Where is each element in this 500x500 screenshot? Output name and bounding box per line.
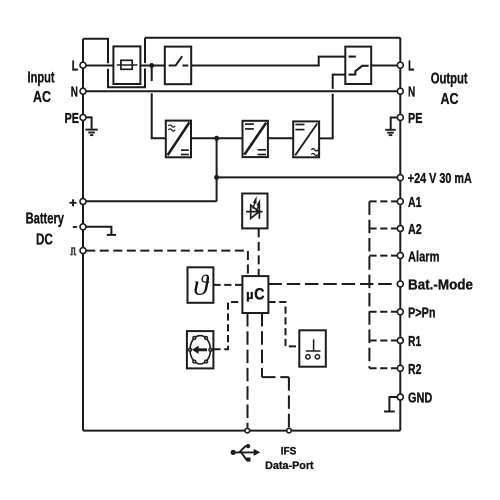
wire: DC bus down xyxy=(216,138,218,177)
battery minus sign xyxy=(73,226,77,228)
fuse element xyxy=(117,60,138,69)
wire: relay bus dashed vertical xyxy=(368,201,370,368)
svg-text:GND: GND xyxy=(408,390,432,406)
wire: temp sensor to uC dashed xyxy=(213,284,242,286)
wire: Alarm stub dashed xyxy=(369,255,397,257)
battery pulse signal symbol xyxy=(70,248,76,255)
wire: DC bus down to battery + xyxy=(216,177,218,201)
LED indicator box xyxy=(242,194,267,229)
converter U3 (DC/AC inverter) box xyxy=(293,121,319,157)
wire: crossing continuation to converter A xyxy=(152,93,166,138)
wire: top-left loop xyxy=(83,39,108,63)
svg-text:C: C xyxy=(254,286,264,304)
temperature sensor box xyxy=(188,267,214,303)
wire: A2 stub dashed xyxy=(369,228,397,230)
terminal N output xyxy=(397,88,403,94)
svg-text:Alarm: Alarm xyxy=(408,249,440,265)
svg-text:IFS: IFS xyxy=(281,445,297,457)
wire: A1 stub dashed xyxy=(369,200,397,202)
fan motor symbol xyxy=(188,336,213,364)
wire: LED to uC dashed xyxy=(258,228,260,276)
wire: uC to IFS port 2 dashed xyxy=(261,313,263,377)
wire: bypass vertical upper xyxy=(144,38,146,63)
switch S2 contact symbol xyxy=(349,57,369,76)
terminal Bat.-Mode xyxy=(397,281,403,287)
wire: +24V rail to terminal xyxy=(217,176,398,178)
converter U3 symbols xyxy=(295,123,318,155)
svg-text:AC: AC xyxy=(441,91,459,108)
svg-text:Output: Output xyxy=(431,71,468,88)
svg-text:A2: A2 xyxy=(408,222,422,238)
terminal PE output xyxy=(397,114,403,120)
terminal P>Pn xyxy=(397,309,403,315)
terminal N input xyxy=(80,88,86,94)
wire: L input to fuse xyxy=(83,65,113,67)
svg-text:Input: Input xyxy=(28,70,55,87)
terminal battery + xyxy=(80,199,86,205)
svg-text:AC: AC xyxy=(33,89,51,106)
ground: output PE xyxy=(385,118,397,136)
svg-text:L: L xyxy=(408,59,414,75)
svg-text:DC: DC xyxy=(36,232,53,249)
wire: P>Pn stub dashed xyxy=(369,311,397,313)
terminal Alarm xyxy=(397,253,403,259)
terminal PE input xyxy=(80,114,86,120)
push-button box xyxy=(299,330,326,366)
wire: enclosure bottom border xyxy=(83,430,400,432)
terminal A1 xyxy=(397,198,403,204)
switch S1 box xyxy=(165,47,191,85)
node: +24V tap junction xyxy=(214,175,219,180)
fan box xyxy=(187,331,214,368)
wire: uC to Bat.-Mode terminal dashed xyxy=(268,283,397,285)
push-button symbol xyxy=(306,339,321,359)
dashed signal wires xyxy=(86,228,258,276)
wire: uC to IFS port 1 dashed xyxy=(247,313,249,428)
wire: battery + wire xyxy=(83,200,217,202)
svg-text:µ: µ xyxy=(246,288,253,302)
wire: U2 to U3 xyxy=(268,137,293,139)
converter U2 symbols xyxy=(244,123,266,155)
terminal circles left xyxy=(80,62,86,253)
wire: fan to uC dashed xyxy=(213,302,242,349)
node: junction after fuse xyxy=(149,63,154,68)
fuse box F1 xyxy=(113,46,140,84)
terminal circles right xyxy=(397,62,403,400)
svg-text:N: N xyxy=(71,84,78,100)
terminal +24V xyxy=(397,175,403,181)
USB connector symbol xyxy=(231,444,261,462)
terminal L output xyxy=(397,62,403,68)
wire: U1 to node xyxy=(191,137,217,139)
svg-text:Bat.-Mode: Bat.-Mode xyxy=(408,278,473,294)
svg-text:PE: PE xyxy=(408,111,422,127)
svg-text:N: N xyxy=(408,84,415,100)
wire: S1 to changeover relay xyxy=(191,57,345,66)
wire: enclosure right border xyxy=(399,38,401,431)
ground: input PE xyxy=(85,117,97,135)
terminal R2 xyxy=(397,365,403,371)
svg-text:R2: R2 xyxy=(408,362,421,378)
converter U1 (AC/DC) box xyxy=(166,121,191,158)
terminal R1 xyxy=(397,338,403,344)
switch S2 (changeover relay) box xyxy=(345,47,371,84)
ground: GND terminal chassis xyxy=(384,397,397,412)
svg-text:Battery: Battery xyxy=(26,211,64,228)
svg-text:P>Pn: P>Pn xyxy=(408,305,436,321)
wire: enclosure left border xyxy=(82,39,84,431)
wire: top bypass line xyxy=(145,37,400,39)
terminal circles bottom xyxy=(245,428,291,433)
microcontroller box U4 xyxy=(242,276,268,313)
wire: S2 to L output terminal xyxy=(371,65,397,67)
svg-text:+24 V 30 mA: +24 V 30 mA xyxy=(408,171,472,187)
terminal GND xyxy=(397,394,403,400)
terminal A2 xyxy=(397,226,403,232)
wire: R2 stub dashed xyxy=(369,367,397,369)
battery plus sign xyxy=(70,199,77,206)
svg-text:Data-Port: Data-Port xyxy=(265,460,314,472)
svg-text:ϑ: ϑ xyxy=(193,271,209,302)
terminal L input xyxy=(80,62,86,68)
wire: junction down to AC/DC converter xyxy=(151,66,153,82)
wire: battery signal dashed to uC xyxy=(86,251,248,277)
wire: U3 output up to relay (lower part) xyxy=(319,94,333,139)
terminal battery signal xyxy=(80,248,86,254)
terminal battery - xyxy=(80,224,86,230)
wire: N line xyxy=(83,90,400,92)
wire: top-left loop lower segment xyxy=(108,69,145,88)
wire: R1 stub dashed xyxy=(369,340,397,342)
node: DC bus junction xyxy=(214,136,219,141)
wire: U3 output crossing N to relay xyxy=(333,75,346,89)
ground: battery minus chassis xyxy=(86,227,116,235)
svg-text:R1: R1 xyxy=(408,334,421,350)
svg-text:PE: PE xyxy=(65,111,79,127)
svg-text:A1: A1 xyxy=(408,195,422,211)
svg-text:L: L xyxy=(72,59,78,75)
LED symbol xyxy=(246,196,263,219)
terminal IFS 1 xyxy=(245,428,250,433)
converter U1 symbols xyxy=(168,122,190,155)
converter U2 (DC/DC) box xyxy=(243,121,268,157)
switch S1 contact symbol xyxy=(169,56,189,66)
terminal IFS 2 xyxy=(287,428,292,433)
wire: fuse to junction to switch S1 xyxy=(140,65,164,67)
wire: uC to push-button dashed xyxy=(268,302,299,346)
wire: node to converter U2 xyxy=(217,137,243,139)
